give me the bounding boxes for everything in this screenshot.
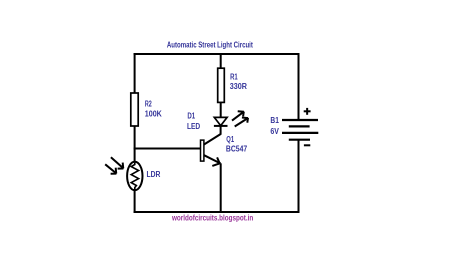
svg-text:D1: D1 [187, 111, 195, 120]
resistor R1 [218, 68, 225, 102]
wire R1 drop from top rail [220, 54, 222, 69]
svg-text:BC547: BC547 [226, 144, 248, 153]
battery B1 plate short [289, 125, 310, 127]
battery B1 plate long top [282, 119, 318, 121]
svg-text:6V: 6V [270, 127, 279, 136]
transistor Q1 emitter arrowhead [212, 157, 219, 166]
svg-text:R1: R1 [230, 73, 238, 82]
wire left upper (top rail to R2) [134, 53, 136, 94]
wire left lower (LDR to bottom rail) [134, 189, 136, 213]
LED D1 triangle [214, 117, 227, 125]
LED light arrow 2 [235, 118, 249, 127]
wire right lower (battery - to bottom rail) [298, 140, 300, 213]
svg-text:100K: 100K [145, 110, 162, 119]
svg-text:LED: LED [187, 122, 200, 131]
LDR light arrow 2 [105, 164, 116, 173]
wire bottom rail [134, 211, 300, 213]
wire R1 to LED [220, 102, 222, 118]
LDR light arrow 1 [111, 157, 124, 168]
battery minus sign [304, 144, 310, 146]
svg-text:B1: B1 [270, 116, 279, 125]
transistor Q1 collector lead [203, 134, 221, 145]
resistor R2 [131, 93, 138, 126]
svg-text:Automatic Street Light Circuit: Automatic Street Light Circuit [167, 40, 253, 49]
transistor Q1 bar [201, 140, 204, 161]
svg-text:Q1: Q1 [226, 135, 234, 144]
wire LED to collector bend [220, 126, 222, 135]
battery plus sign [304, 108, 311, 115]
svg-text:R2: R2 [145, 100, 152, 109]
wire emitter to bottom rail [220, 163, 222, 213]
battery B1 plate long lower [282, 132, 318, 134]
LDR zigzag element [131, 163, 138, 190]
wire top rail [134, 53, 300, 55]
LED light arrow 1 [232, 111, 244, 120]
wire left middle (R2 to LDR) [134, 126, 136, 163]
svg-text:LDR: LDR [147, 170, 161, 179]
LED D1 cathode bar [214, 125, 228, 127]
battery B1 plate short bottom [289, 139, 310, 141]
wire base (left rail to Q1 base) [134, 148, 201, 150]
LDR photoresistor body [127, 162, 142, 190]
wire right upper (top rail to battery +) [298, 53, 300, 120]
svg-text:330R: 330R [230, 82, 247, 91]
svg-text:worldofcircuits.blogspot.in: worldofcircuits.blogspot.in [171, 214, 253, 223]
transistor Q1 emitter lead [204, 155, 221, 163]
